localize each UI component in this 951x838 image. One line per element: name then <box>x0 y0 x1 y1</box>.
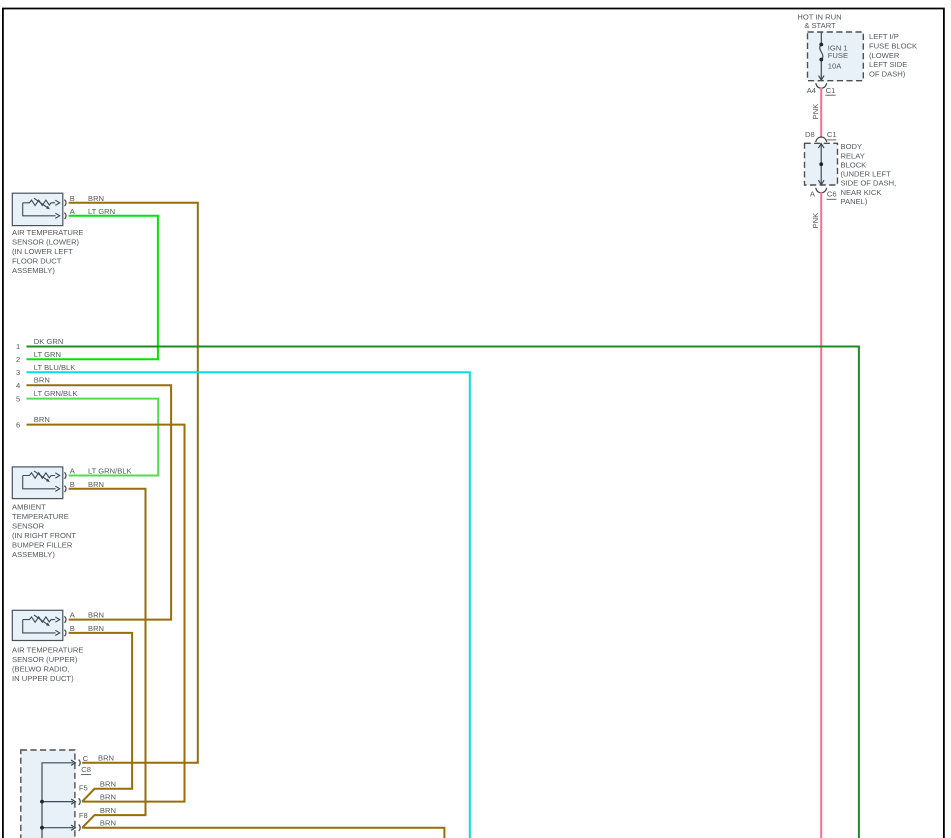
svg-text:BRN: BRN <box>100 793 116 802</box>
svg-text:LT GRN: LT GRN <box>34 350 61 359</box>
svg-text:B: B <box>70 480 75 489</box>
connector D8 C1 <box>805 130 837 140</box>
svg-text:C8: C8 <box>81 765 91 774</box>
body relay block box <box>805 143 838 185</box>
air temperature sensor (upper) caption <box>12 646 83 684</box>
svg-text:LT BLU/BLK: LT BLU/BLK <box>34 363 76 372</box>
label HOT IN RUN & START <box>797 13 841 31</box>
wire BRN ambient sensor B to pin F8 <box>69 489 146 828</box>
wire 4 BRN to air temperature sensor upper pin A <box>27 385 172 619</box>
svg-text:BODY: BODY <box>841 142 863 151</box>
svg-text:10A: 10A <box>828 62 842 71</box>
svg-text:ASSEMBLY): ASSEMBLY) <box>12 266 55 275</box>
svg-text:FLOOR DUCT: FLOOR DUCT <box>12 257 62 266</box>
wire BRN sensor lower B to pin C vertical <box>69 203 198 763</box>
pin C cup <box>79 760 81 766</box>
svg-text:AMBIENT: AMBIENT <box>12 503 46 512</box>
svg-text:& START: & START <box>804 21 836 30</box>
svg-text:BRN: BRN <box>100 780 116 789</box>
body relay block side text <box>841 142 897 206</box>
wire PNK body relay block down <box>820 192 822 838</box>
svg-text:SENSOR: SENSOR <box>12 522 45 531</box>
svg-text:SIDE OF DASH,: SIDE OF DASH, <box>841 179 897 188</box>
svg-text:FUSE: FUSE <box>828 51 848 60</box>
svg-text:C1: C1 <box>827 130 837 139</box>
connector internal bus <box>42 760 75 838</box>
svg-text:OF DASH): OF DASH) <box>869 69 906 78</box>
svg-text:BRN: BRN <box>34 415 50 424</box>
svg-text:BRN: BRN <box>88 611 104 620</box>
wire LT GRN sensor lower A to wire row 2 <box>27 216 158 359</box>
ambient temperature sensor caption <box>12 503 76 560</box>
svg-text:PANEL): PANEL) <box>841 197 868 206</box>
wire 6 BRN to pin F5 <box>27 425 185 802</box>
svg-text:RELAY: RELAY <box>841 151 865 160</box>
svg-text:BRN: BRN <box>88 194 104 203</box>
svg-text:BLOCK: BLOCK <box>841 161 867 170</box>
svg-text:4: 4 <box>16 381 20 390</box>
svg-text:BRN: BRN <box>88 480 104 489</box>
svg-text:AIR TEMPERATURE: AIR TEMPERATURE <box>12 646 83 655</box>
svg-text:FUSE BLOCK: FUSE BLOCK <box>869 42 917 51</box>
svg-text:(UNDER LEFT: (UNDER LEFT <box>841 170 892 179</box>
svg-text:SENSOR (LOWER): SENSOR (LOWER) <box>12 238 80 247</box>
svg-text:C6: C6 <box>827 190 837 199</box>
svg-text:F5: F5 <box>79 783 88 792</box>
svg-text:6: 6 <box>16 421 20 430</box>
svg-text:LT GRN/BLK: LT GRN/BLK <box>34 389 78 398</box>
air temperature sensor (lower) caption <box>12 228 83 275</box>
svg-text:BRN: BRN <box>100 806 116 815</box>
svg-text:2: 2 <box>16 355 20 364</box>
left I/P fuse block box <box>808 32 864 81</box>
ambient temperature sensor box <box>12 467 66 499</box>
fuse terminal dots <box>819 43 823 62</box>
svg-text:BRN: BRN <box>88 624 104 633</box>
svg-text:LT GRN: LT GRN <box>88 207 115 216</box>
fuse block side text <box>869 32 917 78</box>
svg-text:ASSEMBLY): ASSEMBLY) <box>12 550 55 559</box>
svg-text:(IN LOWER LEFT: (IN LOWER LEFT <box>12 247 73 256</box>
connector A4 C1 cup <box>816 83 827 88</box>
body relay block internal wire <box>818 144 824 185</box>
pin F5 cup <box>79 798 81 804</box>
svg-text:BRN: BRN <box>34 376 50 385</box>
svg-text:BRN: BRN <box>100 818 116 827</box>
junction dot pin F8 <box>40 826 44 830</box>
air temperature sensor (lower) box <box>12 193 66 225</box>
bottom connector block box <box>21 750 75 838</box>
connector A C6 cup <box>816 188 827 193</box>
wire BRN pin F8 long to right <box>82 828 444 838</box>
svg-text:NEAR KICK: NEAR KICK <box>841 188 882 197</box>
svg-text:DK GRN: DK GRN <box>34 337 64 346</box>
svg-text:BUMPER FILLER: BUMPER FILLER <box>12 541 73 550</box>
svg-text:LT GRN/BLK: LT GRN/BLK <box>88 467 132 476</box>
svg-text:B: B <box>70 624 75 633</box>
fuse IGN 1 FUSE 10A <box>819 32 824 80</box>
svg-text:LEFT SIDE: LEFT SIDE <box>869 60 907 69</box>
wire row numbers <box>16 342 20 430</box>
svg-text:3: 3 <box>16 368 20 377</box>
svg-text:C1: C1 <box>826 86 836 95</box>
svg-text:D8: D8 <box>805 130 815 139</box>
svg-text:5: 5 <box>16 395 20 404</box>
wire 5 LT GRN/BLK to ambient sensor pin A <box>27 399 159 476</box>
svg-text:PNK: PNK <box>811 104 820 120</box>
svg-text:AIR TEMPERATURE: AIR TEMPERATURE <box>12 228 83 237</box>
svg-text:B: B <box>70 194 75 203</box>
svg-text:PNK: PNK <box>811 213 820 229</box>
svg-text:BRN: BRN <box>98 753 114 762</box>
junction dot body relay block <box>819 162 823 166</box>
svg-text:IN UPPER DUCT): IN UPPER DUCT) <box>12 674 74 683</box>
svg-text:F8: F8 <box>79 811 88 820</box>
svg-text:A4: A4 <box>807 86 816 95</box>
svg-text:1: 1 <box>16 342 20 351</box>
junction dot pin F5 <box>40 800 44 804</box>
pin F8 cup <box>79 825 81 831</box>
wire 1 DK GRN <box>27 347 859 838</box>
wire 3 LT BLU/BLK <box>27 372 470 838</box>
svg-text:C: C <box>83 754 89 763</box>
svg-text:(BELWO RADIO,: (BELWO RADIO, <box>12 665 70 674</box>
wire PNK fuse to body relay block <box>820 87 822 137</box>
wire BRN sensor upper B to pin F5 <box>69 633 133 802</box>
air temperature sensor (upper) box <box>12 610 66 640</box>
svg-text:(IN RIGHT FRONT: (IN RIGHT FRONT <box>12 531 76 540</box>
svg-text:SENSOR (UPPER): SENSOR (UPPER) <box>12 655 78 664</box>
svg-text:LEFT I/P: LEFT I/P <box>869 32 899 41</box>
svg-text:(LOWER: (LOWER <box>869 51 900 60</box>
svg-text:TEMPERATURE: TEMPERATURE <box>12 512 69 521</box>
